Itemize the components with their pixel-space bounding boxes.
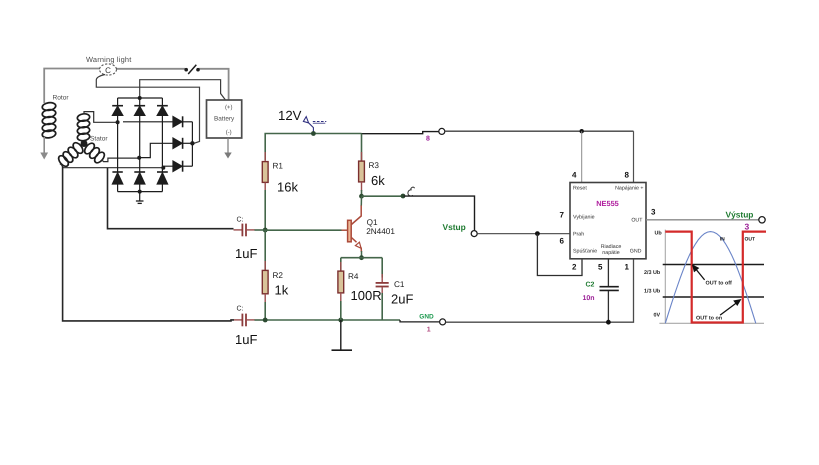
svg-text:GND: GND bbox=[630, 249, 642, 255]
wire: c tap to Vstup terminal bbox=[404, 196, 475, 231]
resistor R1 bbox=[262, 152, 298, 195]
svg-text:1: 1 bbox=[427, 327, 431, 334]
svg-text:Stator: Stator bbox=[90, 136, 108, 143]
node: c tap bbox=[401, 194, 406, 199]
svg-text:Spúšťanie: Spúšťanie bbox=[573, 249, 597, 255]
wire: bridge bottom bar bbox=[118, 191, 163, 193]
wire: field diode common bbox=[191, 122, 193, 166]
wire: R2 to bottom rail bbox=[264, 302, 266, 320]
wire: collector node to c tap bbox=[362, 195, 404, 197]
svg-text:6k: 6k bbox=[371, 173, 385, 188]
svg-text:(+): (+) bbox=[225, 104, 233, 111]
diode D3 bbox=[157, 98, 168, 172]
lamp L1 warning light bbox=[100, 64, 117, 75]
node: 12V junction bbox=[311, 131, 316, 136]
node: B+ sense junction bbox=[190, 141, 194, 145]
wire: R1 to input node bbox=[264, 190, 266, 230]
svg-text:8: 8 bbox=[625, 171, 630, 180]
svg-text:NE555: NE555 bbox=[596, 199, 619, 208]
resistor R2 bbox=[262, 230, 288, 304]
svg-text:16k: 16k bbox=[277, 180, 298, 195]
terminal: pin8 feed bbox=[439, 128, 445, 134]
diode D8 field mid bbox=[139, 138, 192, 158]
svg-text:2/3 Ub: 2/3 Ub bbox=[644, 270, 661, 276]
transistor Q1 2N4401 bbox=[342, 197, 396, 258]
switch S1 bbox=[184, 68, 188, 72]
svg-text:Výstup: Výstup bbox=[726, 209, 754, 219]
wire: battery to ground bbox=[227, 138, 229, 153]
svg-text:OUT to on: OUT to on bbox=[696, 316, 722, 322]
svg-text:5: 5 bbox=[598, 263, 603, 272]
diode D7 field top (right row) bbox=[123, 116, 192, 127]
svg-text:C: C bbox=[105, 66, 111, 75]
stator coils (Y) bbox=[57, 113, 106, 168]
svg-text:6: 6 bbox=[560, 237, 565, 246]
diode D6 bottom-right bbox=[157, 172, 168, 192]
node: C2 to ground rail bbox=[606, 320, 611, 325]
node: right col / stator left bbox=[161, 166, 165, 170]
svg-text:4: 4 bbox=[572, 171, 577, 180]
annotation arrow OUT to off bbox=[697, 270, 705, 280]
wire: pin8 riser bbox=[633, 131, 635, 182]
wire: bottom rail to terminal 1 bbox=[400, 320, 439, 322]
svg-text:2: 2 bbox=[572, 263, 577, 272]
annotation arrow OUT to on bbox=[720, 303, 737, 316]
node: pin6/pin2 tie bbox=[535, 231, 540, 236]
wire: bottom rail green bbox=[265, 319, 400, 321]
wire: pin4 riser bbox=[581, 131, 583, 182]
svg-text:1/3 Ub: 1/3 Ub bbox=[644, 289, 661, 295]
node: emitter junction bbox=[359, 255, 364, 260]
capacitor C2 10n bbox=[600, 286, 619, 288]
wire: input node to base bbox=[265, 229, 341, 231]
wire: stator right coil to bridge middle column bbox=[102, 158, 140, 162]
svg-text:2uF: 2uF bbox=[391, 292, 413, 307]
svg-text:3: 3 bbox=[745, 222, 750, 232]
node: left col / stator top bbox=[116, 120, 120, 124]
wire: Vstup to pin6 bbox=[477, 233, 570, 235]
op-amp U1 NE555 box bbox=[570, 183, 646, 259]
svg-text:OUT: OUT bbox=[631, 218, 643, 224]
rotor coil bbox=[42, 100, 57, 139]
capacitor Cin bottom (C: 1uF) bbox=[234, 306, 265, 348]
resistor R4 bbox=[338, 258, 382, 320]
svg-text:Prah: Prah bbox=[573, 232, 584, 238]
diode D9 field bottom bbox=[163, 161, 192, 172]
node: collector junction bbox=[359, 194, 364, 199]
threshold line 2/3 Ub bbox=[663, 264, 764, 266]
svg-text:0V: 0V bbox=[654, 313, 661, 319]
wire: stator left coil down to bottom coupling cap bbox=[60, 164, 234, 321]
svg-text:Ub: Ub bbox=[655, 231, 663, 237]
terminal: Vstup bbox=[471, 231, 477, 237]
capacitor C1 2uF bbox=[376, 258, 414, 320]
svg-text:C1: C1 bbox=[394, 280, 405, 289]
svg-text:C:: C: bbox=[237, 217, 244, 224]
svg-text:(-): (-) bbox=[226, 129, 232, 136]
capacitor Cin top (C: 1uF) bbox=[234, 217, 266, 262]
diode D4 bottom-left bbox=[112, 172, 122, 192]
node: R2/cap bottom bbox=[263, 318, 268, 323]
wire: stator left phase cross line to right column bbox=[63, 167, 164, 169]
svg-text:Vybíjanie: Vybíjanie bbox=[573, 215, 595, 221]
threshold line 1/3 Ub bbox=[663, 296, 764, 298]
svg-text:C2: C2 bbox=[586, 282, 595, 289]
resistor R3 bbox=[359, 134, 386, 197]
svg-text:8: 8 bbox=[426, 136, 430, 143]
svg-text:100R: 100R bbox=[351, 288, 382, 303]
svg-text:12V: 12V bbox=[278, 108, 302, 123]
svg-text:3: 3 bbox=[651, 208, 656, 217]
wire: top rail black to terminal 8 bbox=[362, 132, 439, 134]
diode D2 bbox=[134, 98, 145, 172]
label: c net bbox=[408, 187, 415, 196]
wire: terminal to 555 ground bbox=[446, 259, 634, 322]
wire: pin5 riser bbox=[607, 259, 609, 286]
wire: top rail green bbox=[265, 134, 361, 161]
svg-text:10n: 10n bbox=[583, 295, 595, 302]
svg-text:Vstup: Vstup bbox=[443, 222, 466, 232]
diode D1 bbox=[112, 98, 123, 172]
svg-text:R2: R2 bbox=[273, 271, 284, 280]
terminal: GND net bbox=[440, 319, 446, 325]
svg-text:Napájanie +: Napájanie + bbox=[615, 186, 643, 192]
wire: bridge + output to battery bbox=[140, 80, 226, 100]
wire: tap down to top coupling cap bbox=[108, 168, 234, 229]
curve OUT square wave bbox=[665, 232, 766, 323]
svg-text:OUT: OUT bbox=[745, 237, 756, 243]
wire: terminal to 555 supply rails bbox=[445, 130, 634, 132]
axis X bbox=[659, 322, 764, 324]
svg-text:R3: R3 bbox=[369, 161, 380, 170]
wire: pin3 out bbox=[646, 219, 759, 221]
wire: lamp to switch bbox=[116, 68, 185, 70]
power symbol VCC bbox=[303, 117, 326, 134]
svg-text:IN: IN bbox=[720, 237, 725, 243]
curve IN sine bbox=[665, 232, 756, 324]
battery BT1 bbox=[207, 100, 242, 159]
svg-text:C:: C: bbox=[237, 306, 244, 313]
svg-text:Reset: Reset bbox=[573, 186, 587, 192]
rotor ground arrow bbox=[43, 137, 45, 154]
wire: emitter rail bbox=[341, 257, 382, 259]
wire: pin2 loop bbox=[537, 234, 582, 276]
svg-text:R4: R4 bbox=[348, 272, 359, 281]
diode D5 bottom-mid bbox=[134, 172, 145, 192]
node: base input node bbox=[263, 228, 268, 233]
node: pin4 tap bbox=[580, 129, 584, 133]
svg-text:1uF: 1uF bbox=[235, 332, 257, 347]
node: R4/ground bbox=[338, 318, 343, 323]
diode bridge bbox=[112, 96, 194, 203]
wire: lamp bottom to B+ sense (down right side of bridge) bbox=[96, 75, 199, 144]
svg-text:1: 1 bbox=[625, 263, 630, 272]
wire: bridge top bar bbox=[118, 97, 163, 99]
axis Y bbox=[664, 230, 666, 324]
svg-text:Rotor: Rotor bbox=[53, 95, 70, 102]
node: bridge bottom center bbox=[138, 190, 142, 194]
svg-text:7: 7 bbox=[560, 211, 565, 220]
node: mid col / stator right bbox=[137, 156, 141, 160]
svg-text:1k: 1k bbox=[275, 283, 289, 298]
ground: battery bbox=[224, 153, 231, 159]
terminal: Výstup bbox=[759, 217, 765, 223]
svg-text:1uF: 1uF bbox=[235, 246, 257, 261]
svg-text:R1: R1 bbox=[273, 162, 284, 171]
svg-text:OUT to off: OUT to off bbox=[706, 281, 733, 287]
wire: switch to battery top bbox=[199, 69, 229, 100]
svg-text:napätie: napätie bbox=[602, 250, 619, 256]
ground: emitter circuit bbox=[340, 320, 342, 350]
node: bridge + top bbox=[138, 96, 142, 100]
svg-text:GND: GND bbox=[419, 314, 434, 321]
svg-text:Battery: Battery bbox=[214, 116, 235, 123]
svg-text:2N4401: 2N4401 bbox=[366, 227, 395, 236]
ground: bridge bbox=[139, 192, 141, 201]
wire: stator top coil to bridge left column bbox=[84, 112, 118, 123]
svg-text:Q1: Q1 bbox=[367, 218, 378, 227]
svg-text:Warning light: Warning light bbox=[86, 55, 131, 64]
wire: lamp feed rail top bbox=[44, 69, 100, 101]
